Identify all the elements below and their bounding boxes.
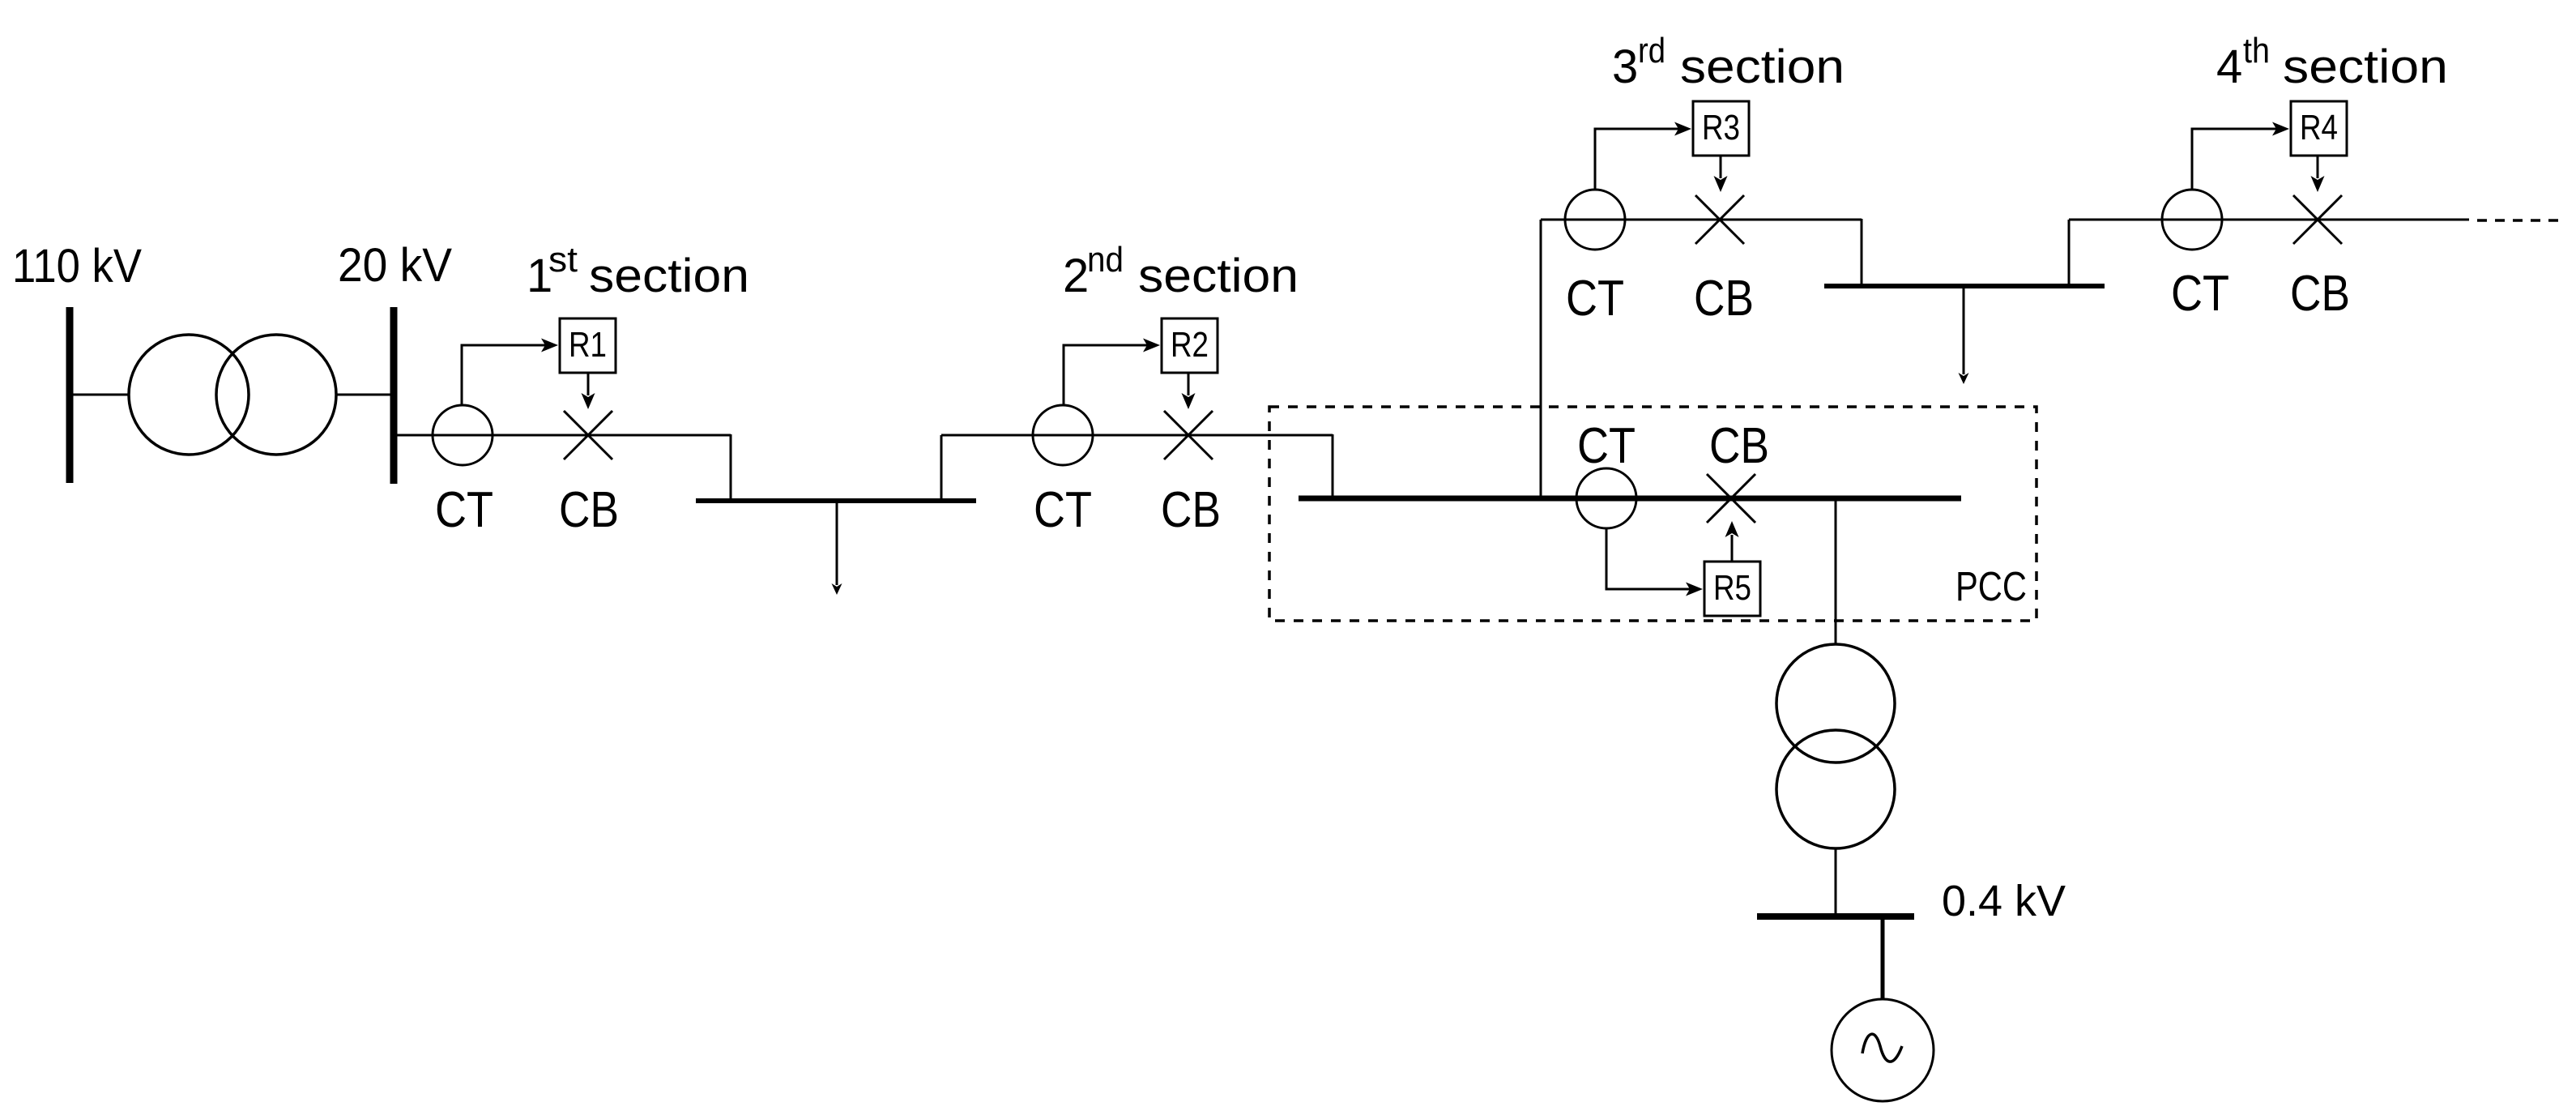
wire CT-to-R4 with arrow [2192,122,2289,190]
svg-text:CT: CT [1566,271,1624,327]
wire bus-to-transformer [71,394,130,396]
PCC boundary dashed box [1269,407,2036,621]
label 4th section [2216,31,2448,93]
generator G sine symbol [1862,1034,1902,1062]
wire CT-to-R3 with arrow [1595,122,1691,190]
svg-text:20 kV: 20 kV [338,239,452,292]
wire PCC bus up to 3rd-section feeder [1540,220,1542,496]
wire corner down to PCC bus [1332,434,1334,496]
relay R3 [1693,101,1749,156]
label 1st section [527,240,749,302]
svg-text:CB: CB [1694,271,1754,327]
svg-text:2: 2 [1063,250,1089,302]
bus 20 kV [390,307,398,484]
transformer T1 primary winding [129,335,249,455]
relay R2 [1162,318,1218,373]
wire 4th-section feeder [2069,219,2469,221]
wire bus B up to 4th-section feeder [2068,220,2071,284]
svg-text:section: section [589,250,749,302]
svg-text:nd: nd [1087,240,1124,280]
svg-text:CT: CT [1577,418,1636,474]
bus B (after 3rd section) [1824,284,2105,288]
svg-text:section: section [2283,41,2448,93]
circuit breaker CB3 [1695,195,1744,244]
bus PCC [1299,496,1961,502]
svg-text:0.4 kV: 0.4 kV [1942,877,2066,925]
wire continuation dashed (further sections) [2477,219,2561,222]
svg-text:R4: R4 [2300,108,2338,147]
bus 0.4 kV [1757,913,1914,920]
load arrow bus B [1959,288,1969,384]
circuit breaker CB4 [2293,195,2342,244]
svg-text:110 kV: 110 kV [12,240,142,293]
load arrow bus A [832,502,842,595]
bus 110 kV [66,307,74,483]
svg-text:CT: CT [2171,266,2229,322]
wire corner down to bus B [1861,219,1863,286]
svg-text:st: st [548,240,578,280]
wire transformer to 0.4kV bus [1835,848,1837,913]
CT CT2 [1033,405,1093,465]
svg-text:CB: CB [2290,266,2350,322]
svg-text:R1: R1 [569,325,607,365]
svg-text:R3: R3 [1702,108,1740,147]
wire CT-to-R5 with arrow [1606,528,1703,596]
wire CT-to-R1 with arrow [462,339,558,406]
svg-text:CB: CB [559,482,619,538]
svg-text:CT: CT [435,482,493,538]
svg-text:R5: R5 [1713,568,1751,608]
svg-text:rd: rd [1638,31,1665,70]
wire transformer-to-bus [336,394,391,396]
svg-text:CB: CB [1709,418,1769,474]
CT CT1 [433,405,493,465]
bus A (after 1st section) [696,498,976,503]
circuit breaker CB2 [1164,411,1213,459]
trip wire R2-to-CB with arrow [1182,373,1196,409]
svg-text:CT: CT [1034,482,1092,538]
svg-text:th: th [2243,31,2270,70]
CT CT5 [1576,468,1636,528]
wire PCC bus down to step-down transformer [1835,501,1837,645]
wire 20kV-bus to 1st-section corner [397,434,731,437]
trip wire R5-to-CB with arrow [1725,521,1739,562]
wire CT-to-R2 with arrow [1064,339,1160,406]
transformer T1 secondary winding [216,335,336,455]
relay R5 [1704,562,1760,616]
svg-text:section: section [1138,250,1299,302]
CT CT3 [1565,190,1625,250]
svg-text:R2: R2 [1171,325,1209,365]
wire 3rd-section feeder [1541,219,1862,221]
label 3rd section [1612,31,1845,93]
wire 0.4kV bus to generator [1881,920,1885,999]
trip wire R3-to-CB with arrow [1714,156,1728,192]
wire corner down to bus A [730,434,732,498]
label 2nd section [1063,240,1299,302]
wire bus A up to 2nd-section feeder [940,435,943,499]
svg-text:CB: CB [1161,482,1221,538]
relay R4 [2291,101,2347,156]
trip wire R1-to-CB with arrow [582,373,595,409]
svg-text:4: 4 [2216,41,2242,93]
transformer T2 primary winding [1776,644,1895,763]
trip wire R4-to-CB with arrow [2311,156,2325,192]
circuit breaker CB5 [1707,474,1755,523]
wire 2nd-section feeder [941,434,1333,437]
circuit breaker CB1 [564,411,612,459]
CT CT4 [2162,190,2222,250]
generator G circle [1832,999,1934,1101]
svg-text:3: 3 [1612,41,1638,93]
transformer T2 secondary winding [1776,730,1895,848]
svg-text:section: section [1680,41,1845,93]
svg-text:PCC: PCC [1955,563,2027,609]
relay R1 [560,318,616,373]
